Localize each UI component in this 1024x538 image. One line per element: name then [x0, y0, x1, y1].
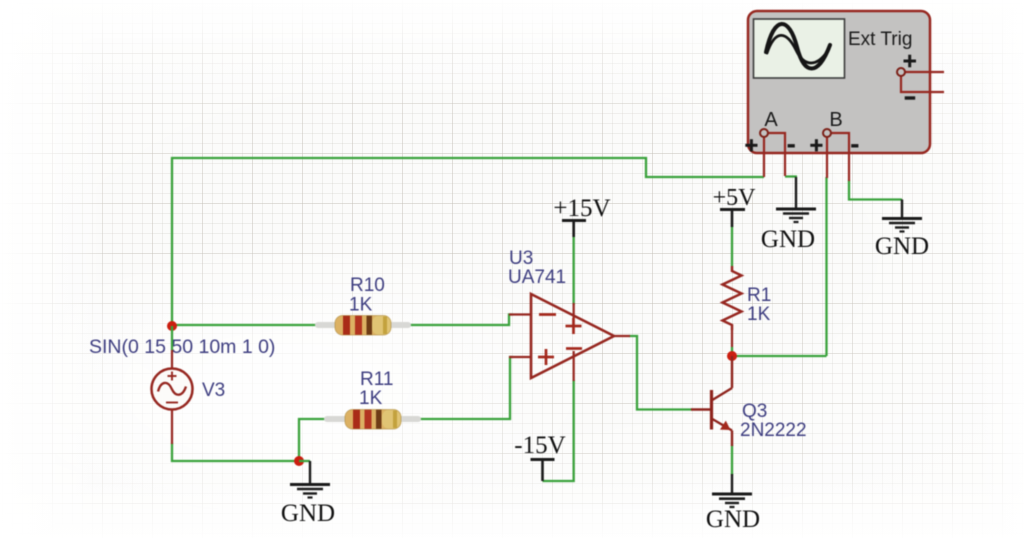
svg-text:U3: U3	[509, 248, 533, 269]
transistor Q3 emitter arrow	[720, 421, 731, 430]
power terminal -15V	[531, 460, 555, 482]
op-amp inverting input mark	[539, 313, 556, 316]
svg-text:R10: R10	[350, 275, 385, 296]
V3 top pin	[171, 350, 173, 369]
svg-text:Q3: Q3	[742, 401, 767, 422]
ground symbol for channel A	[776, 177, 816, 222]
source V3 circle	[152, 369, 193, 410]
channel A plus label	[745, 139, 757, 151]
wire scope A minus to ground	[785, 175, 797, 177]
wire op-amp V- pin down to -15V supply	[543, 380, 574, 481]
wire channel A plus pin down	[763, 136, 765, 177]
resistor R1 zigzag	[723, 266, 742, 330]
resistor R10 photo	[318, 316, 408, 336]
oscilloscope sine icon	[766, 24, 830, 69]
wire Q3 emitter to ground	[731, 445, 733, 475]
svg-text:A: A	[764, 109, 778, 131]
channel A minus label	[788, 144, 795, 147]
transistor Q3	[691, 356, 732, 446]
op-amp U3 pins	[509, 303, 630, 381]
svg-text:GND: GND	[281, 500, 335, 527]
channel A terminal circle	[760, 129, 768, 137]
svg-text:UA741: UA741	[508, 267, 566, 288]
svg-text:R1: R1	[747, 285, 771, 306]
wire collector node to scope channel B plus	[732, 355, 827, 357]
svg-text:GND: GND	[761, 226, 815, 253]
op-amp U3 triangle	[531, 294, 614, 378]
power terminal +15V	[562, 221, 586, 238]
op-amp V+ mark	[566, 318, 582, 334]
wire ext trig stubs	[901, 72, 944, 92]
wire node to V3 top pin	[171, 326, 173, 350]
svg-text:1K: 1K	[747, 304, 771, 325]
power terminal +5V	[720, 210, 745, 228]
svg-text:V3: V3	[202, 380, 225, 401]
wire R1 bottom to collector node	[731, 330, 733, 347]
channel B terminal circle	[823, 129, 831, 137]
svg-text:Ext Trig: Ext Trig	[848, 29, 912, 50]
wire scope channel B plus vertical down to collector node	[825, 177, 827, 356]
wire R11 right segment to op-amp non-inverting input	[418, 357, 513, 419]
oscilloscope body	[748, 11, 930, 153]
wire R11 left segment from ground node up to R11 lead	[299, 419, 328, 461]
wire V3 bottom horizontal to ground node	[172, 443, 299, 461]
wire R10 right segment to op-amp inverting input	[407, 315, 513, 326]
ground symbol for Q3 emitter	[712, 474, 752, 507]
ground symbol for channel B	[882, 200, 922, 232]
V3 minus mark	[166, 402, 178, 404]
op-amp non-inverting input mark	[538, 349, 554, 365]
V3 plus mark	[168, 372, 177, 381]
svg-text:+5V: +5V	[713, 185, 757, 211]
ext trig minus label	[905, 96, 916, 99]
svg-text:1K: 1K	[359, 388, 383, 409]
node junction dot at source ground	[294, 456, 304, 466]
ext trig terminal circle	[897, 68, 905, 76]
svg-text:GND: GND	[875, 233, 929, 260]
wire +5V supply to R1 top	[731, 226, 733, 266]
svg-text:SIN(0 15 50 10m 1 0): SIN(0 15 50 10m 1 0)	[89, 336, 275, 358]
channel B minus label	[851, 144, 858, 147]
svg-text:+15V: +15V	[553, 195, 610, 222]
svg-text:R11: R11	[360, 369, 393, 390]
wire +15V supply to op-amp V+ pin	[573, 235, 575, 305]
wire scope B minus to ground	[849, 180, 902, 200]
svg-text:GND: GND	[706, 506, 760, 533]
channel B plus label	[810, 139, 822, 151]
svg-text:1K: 1K	[349, 295, 373, 316]
wire from V3 top node up and across to scope channel A plus	[172, 158, 764, 326]
V3 sine mark	[158, 383, 186, 395]
svg-text:2N2222: 2N2222	[740, 420, 807, 441]
resistor R11 photo	[327, 410, 418, 430]
wire op-amp output to transistor base	[629, 336, 692, 410]
V3 bottom pin	[171, 410, 173, 445]
oscilloscope screen	[754, 19, 845, 78]
ground symbol for V3	[290, 461, 330, 498]
wire channel B plus pin down	[826, 136, 828, 178]
ext trig plus label	[904, 55, 917, 68]
svg-text:B: B	[829, 109, 842, 131]
node junction dot collector	[727, 351, 737, 361]
wire R10 left segment from node to R10 lead	[172, 324, 318, 326]
wire channel A minus jog	[767, 133, 785, 176]
svg-text:-15V: -15V	[514, 432, 565, 459]
node junction dot at V3 top	[167, 321, 177, 331]
wire channel B minus jog	[830, 133, 849, 181]
op-amp V- mark	[566, 347, 582, 350]
